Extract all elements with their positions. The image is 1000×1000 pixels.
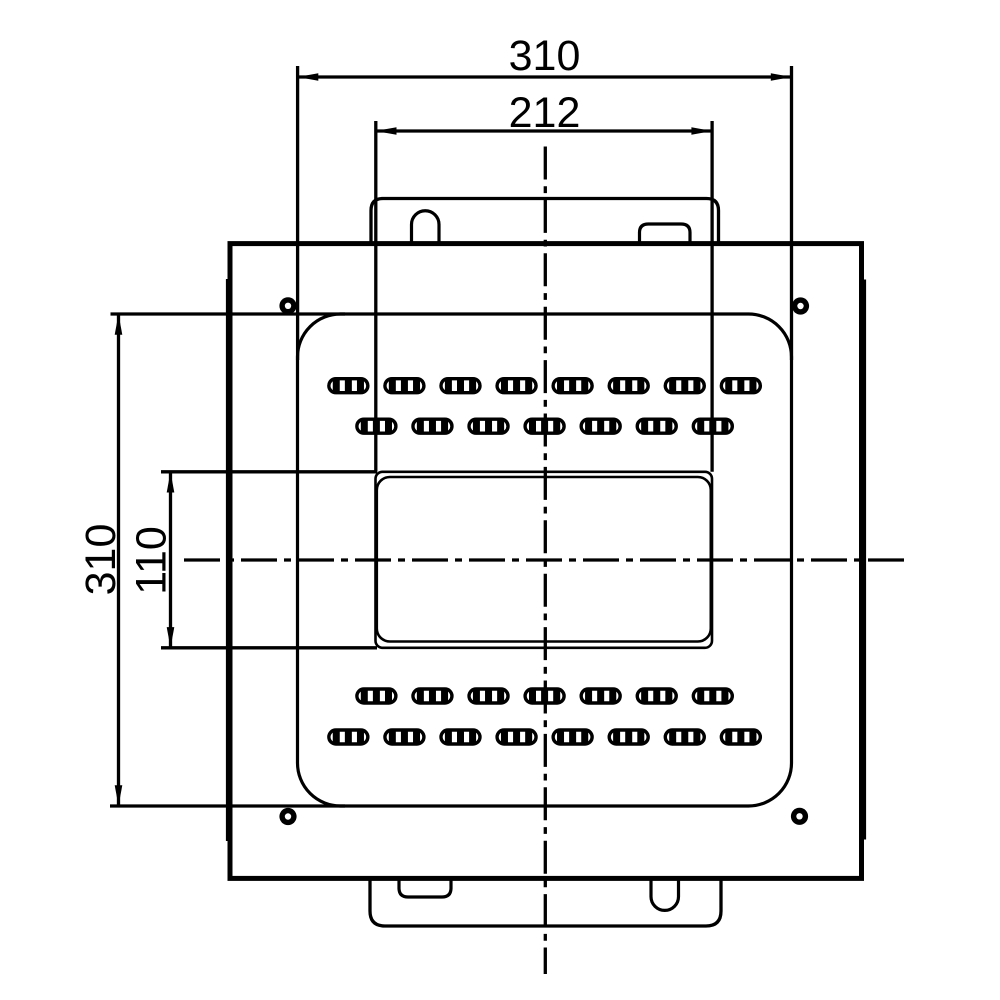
svg-text:310: 310 [77, 524, 125, 596]
svg-text:212: 212 [509, 89, 581, 137]
svg-text:310: 310 [509, 32, 581, 80]
svg-text:110: 110 [128, 526, 176, 595]
